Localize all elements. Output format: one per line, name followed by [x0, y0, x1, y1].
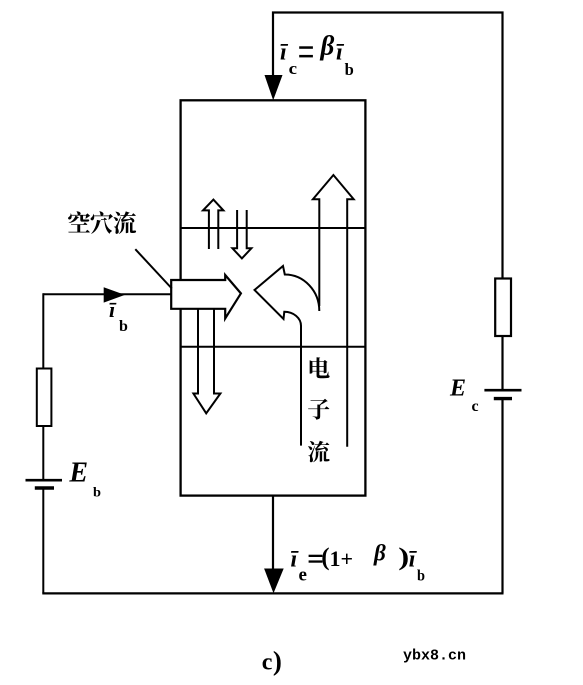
label Ec [449, 376, 479, 415]
svg-text:b: b [119, 318, 128, 335]
wire: collector branch lower [501, 399, 503, 594]
wire: collector top loop to Ec [273, 13, 503, 279]
svg-text:(: ( [321, 544, 329, 571]
label i_b [109, 297, 128, 335]
big hollow up arrow (electron flow to collector) [313, 175, 354, 447]
svg-text:ybx8.cn: ybx8.cn [403, 648, 466, 665]
svg-text:c: c [472, 398, 479, 415]
small hollow down arrow (holes into collector region) [232, 210, 251, 258]
label Eb [68, 458, 101, 501]
arrowhead i_b [104, 287, 125, 302]
battery Ec [484, 390, 521, 398]
svg-text:E: E [68, 458, 88, 489]
transistor body box [181, 100, 366, 495]
svg-text:c: c [289, 59, 298, 78]
label kong-xue-liu (hole current) [68, 211, 136, 234]
curved hollow arrow (electron recombination toward base) + electron stream line [255, 266, 320, 446]
junction line collector-base [181, 227, 365, 229]
wire: base branch vertical upper [42, 293, 44, 480]
svg-text:β: β [320, 31, 335, 61]
label dian-zi-liu (electron flow), vertical [308, 357, 330, 462]
wire: base branch vertical lower [42, 488, 44, 593]
label i_c = beta i_b [280, 31, 354, 80]
battery Eb [26, 480, 63, 488]
hollow down arrow (hole flow into emitter region) [193, 309, 220, 414]
arrowhead i_e [264, 569, 284, 594]
wire: collector branch between resistor and battery [501, 336, 503, 390]
hole current arrow into base (white filled, covers box edge) [171, 275, 241, 318]
svg-text:E: E [449, 376, 466, 402]
pointer line from hole-current label [135, 249, 172, 288]
svg-text:c: c [262, 649, 273, 675]
svg-text:b: b [93, 486, 101, 501]
svg-text:): ) [273, 646, 282, 676]
wire: emitter lead from box [272, 496, 274, 585]
svg-text:1+: 1+ [330, 546, 354, 571]
svg-text:b: b [417, 568, 425, 585]
wire: base input horizontal [43, 293, 171, 295]
svg-text:e: e [299, 565, 307, 586]
resistor Rb [37, 369, 52, 427]
label i_e = (1+beta)i_b [291, 541, 426, 586]
junction line base-emitter [181, 346, 365, 348]
arrowhead: collector current entering box [265, 76, 282, 99]
svg-text:b: b [345, 60, 354, 79]
wire: bottom emitter loop [42, 592, 503, 594]
resistor Rc [495, 279, 511, 337]
svg-text:β: β [373, 541, 386, 566]
svg-text:): ) [398, 543, 409, 570]
small hollow up arrow (electrons into base region) [203, 200, 223, 249]
